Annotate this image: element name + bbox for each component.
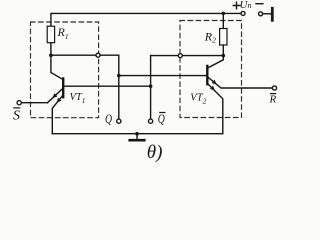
dashed box right (cell 2) xyxy=(180,21,242,118)
minus sign xyxy=(256,3,263,5)
transistor VT2 base bar xyxy=(206,66,208,84)
wire R2 to rail xyxy=(222,13,224,28)
transistor VT2 emitter 2 to ground rail xyxy=(208,84,223,134)
node R2/collector VT2 xyxy=(222,54,226,58)
plus sign xyxy=(233,2,240,9)
svg-text:Q: Q xyxy=(105,111,112,126)
terminal Q circle xyxy=(117,119,121,123)
wire input S xyxy=(21,102,47,104)
arrow emitter1 VT1 xyxy=(52,93,57,98)
overbar of R label xyxy=(271,93,276,95)
dashed box left (cell 1) xyxy=(31,22,99,118)
arrow emitter2 VT1 xyxy=(57,98,62,103)
overbar of S label xyxy=(14,107,20,109)
wire collector2 vertical to Qbar xyxy=(150,56,152,119)
resistor R1 xyxy=(47,26,54,43)
svg-text:S: S xyxy=(13,109,20,124)
node base VT1 coupling xyxy=(149,84,153,88)
resistor R2 xyxy=(220,29,227,46)
svg-text:θ): θ) xyxy=(147,142,163,163)
svg-text:R: R xyxy=(269,94,277,106)
wire top +Un rail xyxy=(51,13,241,26)
ground symbol xyxy=(136,134,138,139)
wire collector1 cross coupling horizontal xyxy=(51,54,119,56)
transistor VT1 emitter 1 (input S) xyxy=(48,89,63,103)
svg-text:Q: Q xyxy=(158,111,165,126)
node ground xyxy=(135,132,139,136)
transistor VT1 base bar xyxy=(62,79,64,98)
terminal bar xyxy=(271,7,274,22)
terminal circle cell2 output xyxy=(178,54,182,58)
terminal + circle xyxy=(241,11,245,15)
overbar of Qbar label xyxy=(160,112,165,114)
wire bottom rail xyxy=(52,133,223,135)
wire R1 bottom to node xyxy=(50,43,52,56)
terminal Qbar circle xyxy=(149,119,153,123)
transistor VT1 collector lead xyxy=(51,55,63,79)
wire - terminal to bar xyxy=(263,13,271,15)
node base VT2 coupling xyxy=(117,74,121,78)
wire base VT1 xyxy=(63,85,150,87)
terminal S circle xyxy=(17,101,21,105)
wire base VT2 xyxy=(119,75,207,77)
terminal R circle xyxy=(272,86,276,90)
wire R2 bottom to collector VT2 xyxy=(208,45,223,68)
arrow emitter1 VT2 xyxy=(212,80,217,85)
wire collector2 cross coupling horizontal xyxy=(151,55,224,57)
node R1/collector VT1 xyxy=(49,53,53,57)
terminal circle cell1 output xyxy=(96,53,100,57)
wire collector1 vertical to Q xyxy=(118,55,120,119)
arrow emitter2 VT2 xyxy=(210,86,215,91)
node junction rail/R2 xyxy=(222,12,226,16)
transistor VT1 emitter 2 to ground rail xyxy=(52,95,63,133)
terminal - circle xyxy=(259,12,263,16)
svg-text:Uп: Uп xyxy=(240,0,252,11)
transistor VT2 emitter 1 (input R) xyxy=(208,77,273,88)
